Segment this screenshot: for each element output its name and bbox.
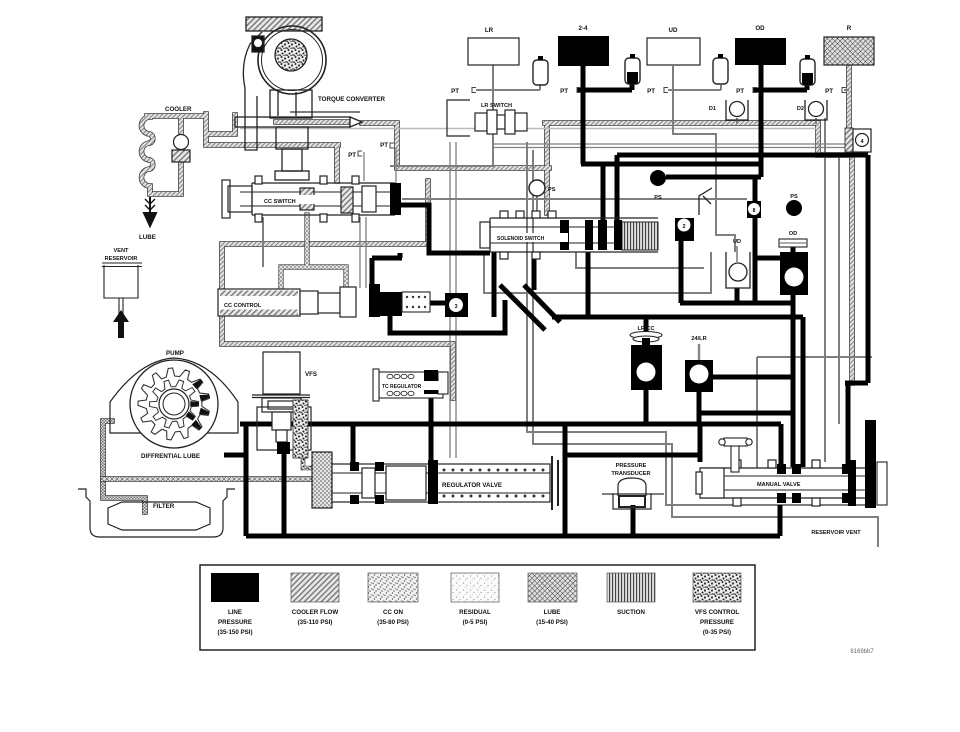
- svg-text:8169bb7: 8169bb7: [850, 649, 874, 655]
- svg-text:24/LR: 24/LR: [691, 336, 706, 342]
- svg-text:PT: PT: [380, 142, 388, 149]
- svg-text:UD: UD: [669, 27, 678, 34]
- svg-text:(35-80 PSI): (35-80 PSI): [377, 619, 409, 626]
- svg-text:VENT: VENT: [114, 248, 130, 254]
- svg-text:SUCTION: SUCTION: [617, 609, 645, 616]
- svg-text:3: 3: [454, 304, 457, 310]
- svg-text:8: 8: [753, 208, 756, 214]
- svg-text:COOLER: COOLER: [165, 106, 192, 113]
- svg-text:PT: PT: [560, 88, 568, 95]
- svg-text:PT: PT: [348, 152, 356, 159]
- svg-text:R: R: [847, 25, 852, 32]
- svg-text:LUBE: LUBE: [139, 234, 156, 241]
- svg-text:LINE: LINE: [228, 609, 242, 616]
- svg-text:PT: PT: [451, 88, 459, 95]
- svg-text:CC ON: CC ON: [383, 609, 403, 616]
- svg-text:REGULATOR VALVE: REGULATOR VALVE: [442, 482, 502, 489]
- svg-text:PS: PS: [548, 187, 556, 193]
- svg-text:D2: D2: [797, 106, 804, 112]
- svg-text:PS: PS: [790, 194, 798, 200]
- svg-text:PRESSURE: PRESSURE: [616, 463, 647, 469]
- svg-text:RESERVOIR VENT: RESERVOIR VENT: [811, 530, 861, 536]
- svg-text:RESIDUAL: RESIDUAL: [459, 609, 491, 616]
- svg-text:D1: D1: [709, 106, 716, 112]
- svg-text:LR: LR: [485, 27, 494, 34]
- svg-text:PS: PS: [654, 195, 662, 201]
- svg-text:PRESSURE: PRESSURE: [700, 619, 734, 626]
- svg-text:TRANSDUCER: TRANSDUCER: [611, 471, 650, 477]
- svg-text:TC REGULATOR: TC REGULATOR: [382, 384, 422, 390]
- svg-text:PT: PT: [825, 88, 833, 95]
- svg-text:PT: PT: [736, 88, 744, 95]
- svg-text:2: 2: [682, 224, 685, 230]
- svg-text:COOLER FLOW: COOLER FLOW: [292, 609, 339, 616]
- svg-text:VFS: VFS: [305, 371, 317, 378]
- svg-text:(0-35 PSI): (0-35 PSI): [703, 629, 731, 636]
- svg-text:CC SWITCH: CC SWITCH: [264, 199, 296, 205]
- svg-text:FILTER: FILTER: [153, 503, 175, 510]
- svg-text:SOLENOID SWITCH: SOLENOID SWITCH: [497, 236, 545, 242]
- svg-text:(0-5 PSI): (0-5 PSI): [463, 619, 488, 626]
- svg-text:RESERVOIR: RESERVOIR: [105, 256, 138, 262]
- svg-text:OD: OD: [755, 25, 765, 32]
- svg-text:(15-40 PSI): (15-40 PSI): [536, 619, 568, 626]
- svg-text:DIFFRENTIAL LUBE: DIFFRENTIAL LUBE: [141, 453, 200, 460]
- svg-text:LR SWITCH: LR SWITCH: [481, 103, 512, 109]
- svg-text:2-4: 2-4: [579, 25, 589, 32]
- svg-text:MANUAL VALVE: MANUAL VALVE: [757, 482, 801, 488]
- svg-text:TORQUE CONVERTER: TORQUE CONVERTER: [318, 96, 385, 103]
- svg-text:LUBE: LUBE: [544, 609, 561, 616]
- svg-text:PT: PT: [647, 88, 655, 95]
- svg-text:CC CONTROL: CC CONTROL: [224, 303, 262, 309]
- svg-text:VFS CONTROL: VFS CONTROL: [695, 609, 740, 616]
- svg-text:PRESSURE: PRESSURE: [218, 619, 252, 626]
- svg-text:PUMP: PUMP: [166, 350, 184, 357]
- svg-text:(35-150 PSI): (35-150 PSI): [217, 629, 252, 636]
- svg-text:OD: OD: [789, 231, 797, 237]
- svg-text:(35-110 PSI): (35-110 PSI): [298, 619, 333, 626]
- svg-text:UD: UD: [733, 239, 741, 245]
